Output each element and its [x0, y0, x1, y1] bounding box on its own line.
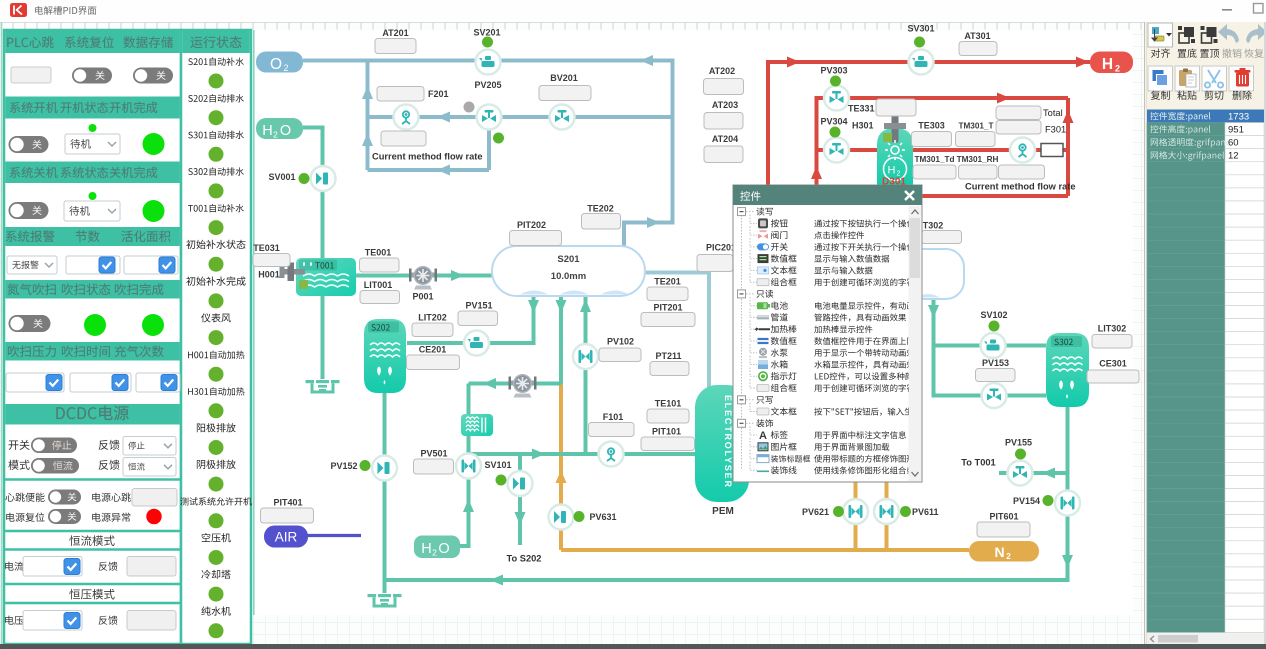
svg-text:2: 2: [1006, 551, 1011, 561]
canvas left edge line: [1, 22, 3, 644]
arrow inner riser up: [811, 166, 822, 179]
wire H2 third pipe (D301): [817, 148, 1069, 152]
arrow HX vertical up: [463, 499, 474, 512]
svg-text:H: H: [888, 165, 896, 177]
arrow S302 drain down: [1062, 555, 1073, 568]
property grid: [1147, 110, 1264, 123]
svg-text:PV501: PV501: [420, 449, 447, 459]
wire S201 drain 2: [559, 294, 563, 384]
node H2: [1090, 52, 1133, 74]
indicator dot PV303: [830, 76, 841, 87]
wire H2 top pipe: [768, 60, 1090, 64]
status H301自动加热: [188, 387, 244, 395]
svg-text:AT204: AT204: [712, 134, 738, 144]
left control panel: [4, 30, 252, 644]
svg-text:SV301: SV301: [907, 24, 934, 34]
row: plc heartbeat input + toggles: [11, 67, 51, 83]
svg-text:10.0mm: 10.0mm: [551, 271, 586, 282]
wire O2 riser left branch: [366, 59, 370, 171]
wire PV153 line to S302: [934, 394, 1047, 398]
node AIR: [264, 526, 308, 548]
tank S302: [1046, 333, 1089, 407]
arrow loop bottom left: [437, 165, 450, 176]
wire P101 line: [469, 382, 562, 386]
pump P101: [509, 374, 537, 398]
toolbox item 文本框: [750, 411, 757, 413]
status 测试系统允许开机: [180, 497, 251, 505]
svg-text:AIR: AIR: [275, 530, 298, 545]
wire O2 main pipe: [303, 59, 673, 63]
svg-text:PV611: PV611: [912, 507, 939, 517]
D301 H2 badge: [884, 158, 907, 181]
row: power-on toggle, state dropdown, lamps: [9, 136, 49, 153]
wire S201 drain 1 to S202: [407, 294, 534, 343]
header 氮气吹扫 吹扫状态 吹扫完成: [5, 280, 180, 299]
toolbar button 粘贴: [1175, 66, 1200, 91]
wire H2 right riser: [1066, 98, 1070, 196]
status 初始补水状态: [186, 240, 245, 249]
svg-text:Current method flow rate: Current method flow rate: [372, 152, 483, 162]
node H2O: [256, 118, 303, 139]
arrow second pipe right: [997, 93, 1010, 104]
wire H2 second pipe: [817, 96, 1069, 100]
svg-text:AT202: AT202: [709, 66, 735, 76]
indicator dot PV611: [900, 506, 911, 517]
toolbox item 管道: [750, 316, 757, 318]
svg-text:PIT401: PIT401: [273, 498, 302, 508]
wire drain stub: [383, 580, 387, 593]
svg-text:PT211: PT211: [655, 351, 681, 361]
drain symbol under T001: [306, 380, 340, 392]
svg-text:PV303: PV303: [820, 66, 847, 76]
valve SV001: [311, 166, 336, 191]
toolbox item 数值框: [750, 340, 757, 342]
header 系统报警 节数 活化面积: [5, 227, 180, 246]
toolbox category 只读: [746, 293, 754, 295]
window title 电解槽PID界面: [35, 6, 96, 15]
toolbox category 只写: [746, 399, 754, 401]
svg-text:PIT101: PIT101: [652, 427, 681, 437]
indicator dot SV001: [299, 173, 310, 184]
indicator dot PV152: [360, 460, 371, 471]
arrow riser up 2: [362, 133, 373, 146]
heater H301: [892, 117, 899, 143]
right side panel: [1144, 22, 1266, 644]
D301 heat icon: [885, 140, 905, 160]
valve PV102: [573, 344, 598, 369]
row: 电源复位 toggle / 电源异常 lamp: [6, 513, 44, 522]
svg-text:TM301_RH: TM301_RH: [957, 155, 999, 164]
svg-text:TE201: TE201: [654, 277, 681, 287]
indicator dot PV621: [833, 506, 844, 517]
row: 心跳便能 toggle / 电源心跳 input: [5, 493, 44, 502]
window bottom bar: [0, 644, 1266, 649]
toolbox item 组合框: [750, 387, 757, 389]
header 系统关机 系统状态 关机完成: [5, 162, 180, 184]
valve PV154: [1055, 491, 1080, 516]
node O2: [256, 52, 303, 73]
status 仪表风: [201, 313, 231, 322]
row: power-off toggle, state dropdown, lamps: [9, 202, 49, 219]
svg-text:AT203: AT203: [712, 100, 738, 110]
svg-text:PIT201: PIT201: [653, 303, 682, 313]
svg-text:SV101: SV101: [484, 460, 511, 470]
svg-text:SV102: SV102: [980, 310, 1007, 320]
indicator dot PV304: [830, 127, 841, 138]
valve SV101: [508, 471, 533, 496]
row: 模式 toggle 恒流 / 反馈 dropdown: [8, 460, 29, 470]
flow meter F201: [394, 105, 419, 130]
toolbar button 撤销 (disabled): [1218, 24, 1239, 43]
indicator dot PV154: [1043, 495, 1054, 506]
header 恒压模式: [5, 583, 180, 586]
svg-text:H301: H301: [852, 121, 874, 131]
arrow T001-S201 right: [451, 270, 464, 281]
wire PV621 riser: [854, 482, 858, 550]
svg-text:2: 2: [273, 130, 278, 140]
valve S202 inlet: [464, 331, 489, 356]
svg-text:PV631: PV631: [590, 512, 617, 522]
node H2O makeup: [414, 536, 460, 559]
property 网格透明度:grifpane = 60: [1151, 138, 1231, 148]
status T001自动补水: [188, 204, 244, 212]
toolbar button 剪切: [1202, 66, 1227, 91]
toolbox item 阀门: [750, 234, 757, 236]
title bar: [0, 0, 1266, 22]
wire flow loop riser: [487, 117, 491, 170]
svg-text:H: H: [421, 541, 431, 557]
toolbox item 水箱: [750, 364, 757, 366]
svg-text:LIT202: LIT202: [418, 313, 447, 323]
svg-text:LIT001: LIT001: [364, 280, 393, 290]
svg-text:PV153: PV153: [982, 358, 1009, 368]
toolbar button 置底: [1184, 27, 1194, 37]
status S301自动排水: [188, 131, 244, 139]
toolbox item 水泵: [750, 352, 757, 354]
wire drain collection line: [385, 578, 1070, 582]
row: 电流 box+checkbox / 反馈 input: [5, 562, 23, 571]
status 阴极排放: [197, 460, 236, 469]
toolbox item 数值框: [750, 258, 757, 260]
svg-text:12: 12: [1228, 151, 1239, 162]
wire flow loop bottom: [368, 168, 490, 172]
svg-text:TE031: TE031: [253, 243, 280, 253]
status 初始补水完成: [186, 276, 245, 285]
svg-text:PIC201: PIC201: [706, 243, 736, 253]
maximize button: [1254, 4, 1264, 14]
svg-text:S201: S201: [557, 254, 580, 265]
svg-text:PV102: PV102: [607, 337, 634, 347]
svg-text:PV152: PV152: [330, 461, 357, 471]
pump P001: [409, 266, 437, 290]
heat exchanger E: [461, 414, 493, 436]
wire H2 bottom pipe: [768, 194, 1068, 198]
wire N2 vertical from P101 junction: [559, 384, 563, 551]
svg-text:H: H: [1102, 56, 1113, 73]
header 系统开机 开机状态 开机完成: [5, 97, 180, 119]
property 控件宽度:panel = 1733: [1150, 112, 1210, 121]
svg-text:PV304: PV304: [820, 117, 847, 127]
arrow To T001 left: [1042, 468, 1055, 479]
svg-text:F301: F301: [1045, 125, 1066, 135]
indicator dot PV631: [574, 511, 585, 522]
arrow O2 main left: [640, 55, 653, 66]
wire To T001 line: [999, 471, 1068, 475]
svg-text:TM301_T: TM301_T: [958, 122, 993, 131]
svg-text:Total: Total: [1043, 108, 1063, 118]
valve SV102: [981, 333, 1006, 358]
indicator dot SV201: [482, 37, 493, 48]
flow meter small box on D301 line: [1041, 144, 1063, 157]
label F301 + box: [996, 121, 1041, 135]
status S201自动补水: [188, 57, 244, 65]
svg-text:2: 2: [1115, 64, 1120, 74]
toolbox item 文本框: [750, 269, 757, 271]
toolbar button 删除: [1229, 66, 1254, 91]
wire T302 drain riser: [932, 299, 936, 398]
flow rate box: [381, 131, 426, 146]
toolbox item 指示灯: [750, 375, 757, 377]
wire N2 bottom line: [561, 548, 969, 552]
arrow right riser up: [1063, 110, 1074, 123]
indicator dot PV205b: [493, 133, 504, 144]
toolbar button 恢复 (disabled): [1246, 24, 1266, 43]
svg-text:TM301_Td: TM301_Td: [914, 155, 954, 164]
svg-text:CE301: CE301: [1099, 359, 1127, 369]
svg-text:O: O: [270, 56, 282, 73]
svg-text:PEM: PEM: [712, 506, 734, 517]
arrow T302 drain down: [928, 305, 939, 318]
header 恒流模式: [5, 530, 180, 533]
arrow S201 drain2 down: [556, 300, 567, 313]
wire AIR line: [308, 534, 362, 537]
toolbox category 装饰: [746, 422, 754, 424]
valve PV152: [372, 456, 397, 481]
valve SV201: [476, 50, 501, 75]
svg-text:SV201: SV201: [473, 28, 500, 38]
arrow S201 outlet right: [647, 217, 660, 228]
svg-text:TE303: TE303: [918, 121, 945, 131]
svg-text:2: 2: [283, 63, 288, 73]
status 空压机: [202, 533, 231, 542]
svg-text:SV001: SV001: [268, 172, 295, 182]
tank T001 water tank: [296, 258, 356, 296]
valve SV301: [909, 50, 934, 75]
toolbox item 开关: [750, 246, 757, 248]
toolbar button 对齐: [1148, 23, 1173, 47]
valve PV611: [874, 499, 899, 524]
svg-text:TE101: TE101: [655, 399, 682, 409]
property 控件高度:panel = 951: [1150, 125, 1210, 134]
property 网格大小:grifpanel = 12: [1151, 151, 1224, 161]
toolbox item 组合框: [750, 281, 757, 283]
wire S201 feed riser: [584, 296, 588, 454]
tank S201 oxygen separator: [492, 246, 645, 296]
toolbar button 复制: [1148, 66, 1173, 91]
status S202自动排水: [188, 94, 244, 102]
svg-text:O: O: [438, 541, 449, 557]
svg-text:To S202: To S202: [507, 554, 542, 564]
indicator dot SV301: [914, 37, 925, 48]
wire T001 drain: [321, 296, 325, 379]
wire HX vertical: [467, 384, 471, 547]
svg-text:PIT601: PIT601: [989, 512, 1018, 522]
toolbox item 标签: [750, 434, 757, 436]
svg-text:PIT202: PIT202: [517, 220, 546, 230]
wire BV201 bypass pipe: [368, 115, 674, 119]
heater H001: [283, 269, 305, 275]
arrow bypass left: [437, 112, 450, 123]
toolbox item 加热棒: [750, 328, 757, 330]
arrow feed riser up: [580, 299, 591, 312]
wire H2 left inner riser: [815, 96, 819, 196]
toolbox item 按钮: [750, 222, 757, 224]
svg-text:T302: T302: [923, 221, 944, 231]
svg-text:A: A: [759, 430, 767, 442]
svg-text:TE001: TE001: [365, 248, 392, 258]
svg-text:AT201: AT201: [382, 28, 408, 38]
wire SV101 branch: [518, 454, 522, 545]
svg-text:TE331: TE331: [848, 104, 875, 114]
toolbox item 图片框: [750, 446, 757, 448]
header 吹扫压力 吹扫时间 充气次数: [5, 342, 180, 361]
toolbox item 装饰标题框: [750, 458, 757, 460]
wire anode feed line: [469, 452, 698, 456]
svg-text:Current method flow rate: Current method flow rate: [965, 182, 1076, 192]
svg-text:PV621: PV621: [802, 507, 829, 517]
valve PV205 control: [477, 105, 502, 130]
row: three numeric boxes with checkboxes: [6, 373, 64, 392]
tank T302 hydrogen separator: [902, 249, 964, 299]
wire S302 drain: [1066, 407, 1070, 582]
svg-text:P001: P001: [412, 292, 433, 302]
valve PV153: [982, 383, 1007, 408]
svg-text:H: H: [262, 123, 272, 139]
toolbar button 置顶: [1202, 33, 1212, 43]
minimize button: [1222, 9, 1232, 11]
label F201: [377, 87, 424, 102]
svg-text:CE201: CE201: [419, 345, 447, 355]
row: 电压 box+checkbox / 反馈 input: [5, 616, 23, 625]
arrow drain line left: [490, 575, 503, 586]
arrow riser up 1: [362, 86, 373, 99]
status 阳极排放: [197, 423, 236, 432]
row: alarm dropdown + numeric boxes with checkboxes: [7, 256, 57, 274]
svg-text:F101: F101: [603, 412, 624, 422]
status H001自动加热: [188, 351, 244, 359]
svg-text:To T001: To T001: [961, 458, 995, 468]
svg-text:BV201: BV201: [550, 73, 578, 83]
wire S201 to electrolyser: [645, 273, 709, 389]
svg-text:O: O: [280, 123, 291, 139]
status 冷却塔: [201, 570, 230, 579]
app logo: [10, 3, 27, 17]
wire S202 drain: [383, 393, 387, 582]
tank S202: [364, 319, 406, 393]
arrow top pipe right 1: [787, 57, 800, 68]
svg-text:ELECTROLYSER: ELECTROLYSER: [723, 395, 733, 489]
row: 开关 toggle 停止 / 反馈 dropdown: [9, 440, 30, 450]
status S302自动排水: [188, 167, 244, 175]
valve PV631: [549, 505, 574, 530]
arrow SV101 down: [515, 512, 526, 525]
toolbox item 电池: [750, 305, 757, 307]
wire T001 to S201: [356, 274, 492, 278]
ruler ticks top: [1, 23, 1141, 30]
arrow anode feed right: [532, 449, 545, 460]
svg-text:PV155: PV155: [1005, 438, 1032, 448]
svg-text:951: 951: [1228, 124, 1244, 135]
svg-text:60: 60: [1228, 137, 1239, 148]
indicator dot PV205 grey: [464, 102, 475, 113]
arrow top pipe right 2: [1076, 57, 1089, 68]
svg-text:PV205: PV205: [474, 80, 501, 90]
toolbox tree root line: [741, 212, 743, 470]
arrow N2 vertical up: [556, 470, 567, 483]
svg-text:2: 2: [432, 548, 437, 558]
svg-text:1733: 1733: [1228, 111, 1249, 122]
svg-text:AT301: AT301: [964, 31, 990, 41]
right panel scrollbar: [1147, 634, 1264, 645]
flow meter anode: [599, 442, 624, 467]
wire H2 left outer riser: [766, 60, 770, 196]
label Total + box: [996, 106, 1041, 120]
tank D301 dryer: [877, 128, 913, 186]
svg-text:PV151: PV151: [465, 301, 492, 311]
svg-text:TE202: TE202: [587, 204, 614, 214]
wire H2O makeup connector: [458, 544, 471, 548]
row: purge toggle + lamps: [9, 315, 51, 332]
svg-text:LIT302: LIT302: [1098, 324, 1127, 334]
node N2: [969, 541, 1039, 562]
header DCDC电源: [5, 404, 180, 425]
indicator dot SV102: [989, 321, 1000, 332]
svg-text:PV154: PV154: [1013, 496, 1040, 506]
arrow S201 drain1 down: [528, 300, 539, 313]
wire S201 top outlet: [624, 223, 675, 247]
drain symbol bottom: [368, 594, 402, 606]
valve PV621: [843, 499, 868, 524]
valve BV201: [550, 105, 575, 130]
toolbox item 装饰线: [750, 469, 757, 471]
wire SV102 line to S302: [934, 344, 1047, 348]
status 纯水机: [201, 606, 230, 615]
svg-text:N: N: [994, 544, 1004, 560]
valve PV501: [456, 454, 481, 479]
svg-text:F201: F201: [428, 89, 449, 99]
indicator dot SV101: [496, 475, 507, 486]
valve PV303: [824, 86, 849, 111]
svg-text:H001: H001: [258, 270, 280, 280]
toolbox category 读写: [746, 211, 754, 213]
electrolyser stack: [695, 385, 749, 502]
indicator dot PV155: [1015, 449, 1026, 460]
valve PV304: [824, 138, 849, 163]
valve PV155: [1008, 461, 1033, 486]
arrow P101 line left: [483, 378, 496, 389]
wire right riser x=672: [671, 59, 675, 223]
header PLC heartbeat / system reset / data store / run status: [5, 30, 180, 53]
wire PV611 riser: [885, 482, 889, 550]
white diagram background: [254, 30, 1133, 615]
flow meter TM301: [1010, 138, 1035, 163]
wire H2O inlet to T001: [303, 128, 323, 259]
